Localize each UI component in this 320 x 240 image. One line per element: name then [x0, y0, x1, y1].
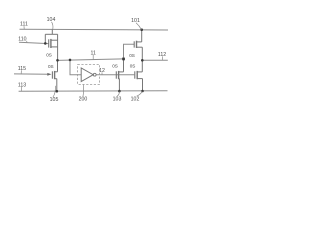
- node source of 103 on bottom rail: [118, 90, 121, 93]
- node source of 102 on bottom rail: [141, 90, 144, 93]
- svg-text:115: 115: [18, 66, 26, 72]
- svg-text:0S: 0S: [46, 52, 52, 57]
- leader 110: [26, 41, 28, 43]
- svg-text:0S: 0S: [130, 63, 136, 68]
- leader 102: [137, 91, 143, 96]
- svg-text:103: 103: [113, 97, 122, 103]
- leader 113: [21, 87, 23, 91]
- wire mid node line (11): [57, 59, 123, 61]
- leader 12: [101, 72, 103, 74]
- leader 101: [136, 23, 141, 30]
- node junction dots: [44, 28, 144, 92]
- svg-text:102: 102: [131, 96, 140, 102]
- svg-text:113: 113: [18, 82, 26, 88]
- svg-text:104: 104: [47, 17, 56, 23]
- svg-text:200: 200: [79, 97, 88, 103]
- svg-text:0S: 0S: [129, 53, 135, 58]
- transistor 104: [45, 29, 57, 60]
- wire output line 112: [142, 59, 168, 61]
- wire op-amp input tap: [70, 60, 81, 75]
- wire bottom rail 113: [19, 90, 168, 93]
- leader 200: [82, 85, 85, 97]
- transistor 102: [135, 60, 143, 91]
- arrowhead of input 115 at gate of 105: [47, 73, 51, 76]
- wire top rail 111: [20, 28, 169, 31]
- node drains of 104/105: [56, 59, 59, 62]
- wire op-amp output to gates of 103 and 102: [96, 74, 134, 76]
- transistor 103: [116, 59, 123, 91]
- op-amp 200 dashed box: [78, 64, 100, 84]
- node output junction on line 112: [141, 59, 144, 62]
- leader 115: [20, 70, 22, 73]
- node drain of 103 / riser: [122, 58, 125, 61]
- wire input line 110: [19, 42, 49, 43]
- wire input line 115: [14, 73, 49, 75]
- op-amp 200 output bubble: [93, 73, 96, 76]
- svg-text:11: 11: [91, 50, 96, 56]
- leader lines: [21, 22, 162, 97]
- transistor 105: [52, 60, 57, 91]
- node op-amp tap: [69, 59, 72, 62]
- svg-text:0S: 0S: [48, 64, 54, 69]
- leader 104: [52, 22, 53, 29]
- leader 111: [23, 26, 25, 29]
- leader 112: [161, 56, 163, 60]
- svg-text:112: 112: [158, 52, 166, 58]
- node source of 105 on bottom rail: [56, 90, 59, 93]
- op-amp 200 triangle: [81, 68, 93, 82]
- leader 103: [117, 92, 119, 97]
- svg-text:0S: 0S: [112, 64, 118, 69]
- node gate of 104 on line 110: [44, 42, 47, 45]
- svg-text:110: 110: [18, 36, 26, 42]
- wire riser to gate of 101: [124, 44, 135, 59]
- svg-text:105: 105: [50, 97, 59, 103]
- svg-text:12: 12: [99, 68, 105, 74]
- transistor 101: [134, 30, 142, 61]
- svg-text:111: 111: [20, 22, 28, 28]
- leader 105: [53, 86, 56, 97]
- node source of 101 on rail: [140, 28, 143, 31]
- svg-text:101: 101: [131, 18, 140, 24]
- leader 11: [92, 55, 94, 60]
